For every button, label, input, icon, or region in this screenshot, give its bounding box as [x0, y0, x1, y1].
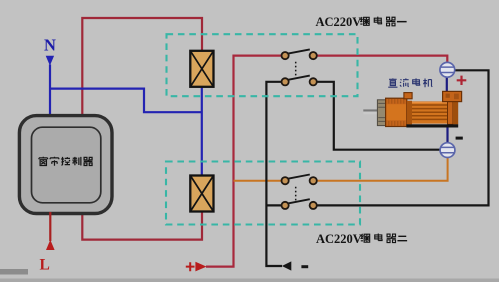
motor right plate [453, 100, 458, 124]
relay K1 contacts dashed enclosure [167, 34, 358, 96]
linkage K2 dotted [295, 187, 297, 201]
wire red: relay coil K2 bottom to controller bottom [82, 212, 202, 240]
contact K1-row1 [282, 49, 317, 59]
label 直流电机 (DC motor) [388, 78, 432, 87]
wire black: K2 row2 right up right side to motor + terminal [313, 70, 489, 205]
label - near motor [456, 137, 463, 140]
wire red: contact row1 to motor + terminal [315, 56, 447, 63]
wire orange: K2 contact row1 to motor - terminal [315, 158, 448, 181]
relay coil K1 [190, 51, 213, 87]
linkage K1 dotted [295, 62, 297, 77]
motor right cap [448, 100, 454, 124]
motor end cap [386, 98, 407, 126]
label + near motor [457, 76, 467, 85]
motor - terminal connector [440, 143, 455, 158]
motor body with ribs [412, 101, 448, 123]
relay coil K2 [190, 176, 213, 212]
terminal + arrow (DC supply positive) [186, 262, 207, 272]
contact K2-row1 [282, 175, 317, 185]
contact K2-row2 [282, 199, 317, 209]
motor + terminal connector [440, 62, 455, 77]
terminal - arrow (DC supply negative) [282, 261, 308, 270]
label AC220V relay 1 [316, 15, 407, 29]
wire red: + supply bus up to relay K1 contact row1 [206, 56, 282, 267]
svg-text:L: L [40, 257, 50, 274]
wire navy: + terminal to motor box [446, 77, 448, 92]
svg-text:AC220V: AC220V [316, 15, 362, 29]
wire black: K1 row2 right to motor - terminal [313, 82, 440, 150]
motor top tab [404, 93, 412, 99]
contact K1-row2 [282, 76, 317, 86]
relay K2 contacts dashed enclosure [166, 162, 360, 225]
motor shaft [363, 109, 378, 111]
dc motor M1 [363, 91, 461, 127]
wire red: controller top loop to relay coil K1 top [82, 18, 202, 116]
wire navy: motor bottom to - terminal [446, 126, 448, 143]
motor neck [407, 101, 412, 125]
curtain controller box [19, 116, 112, 214]
terminal N arrow [44, 36, 56, 117]
motor front flange [377, 100, 385, 126]
wire black: K2 row2 left to - bus [266, 204, 285, 206]
svg-text:AC220V: AC220V [316, 232, 362, 246]
motor base shadow [406, 124, 458, 127]
wire blue: coil K1 bottom to coil K2 top (bus) [201, 87, 203, 176]
terminal L arrow [40, 212, 55, 274]
svg-text:N: N [44, 36, 56, 55]
wire black: K1 row2 left down to - supply bus and arrow [266, 82, 285, 266]
motor terminal box [443, 91, 462, 101]
label 窗帘控制器 (curtain controller) [39, 157, 92, 166]
wire blue: neutral N branch to coil bus [50, 89, 202, 113]
label AC220V relay 2 [316, 232, 407, 246]
wire orange: + supply to relay K2 contact row1 [234, 180, 283, 182]
